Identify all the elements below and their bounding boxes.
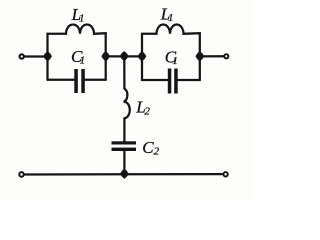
svg-text:C: C xyxy=(142,138,154,157)
svg-text:1: 1 xyxy=(172,55,178,67)
svg-text:2: 2 xyxy=(144,106,150,118)
svg-text:1: 1 xyxy=(80,54,86,66)
svg-text:1: 1 xyxy=(168,12,174,24)
svg-text:1: 1 xyxy=(79,13,85,25)
svg-text:2: 2 xyxy=(154,145,160,157)
